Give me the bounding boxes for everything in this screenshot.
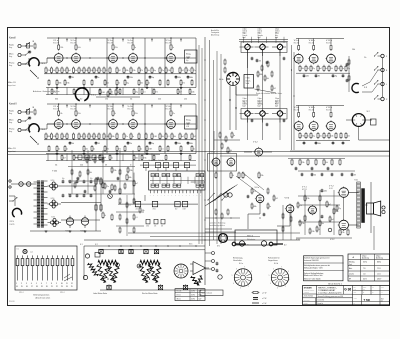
svg-text:T 651: T 651 bbox=[354, 180, 358, 182]
svg-text:120k: 120k bbox=[301, 162, 304, 164]
svg-text:4.62: 4.62 bbox=[354, 289, 357, 291]
svg-text:47k: 47k bbox=[187, 70, 190, 72]
record head feed wires bbox=[248, 203, 260, 229]
svg-text:Eing.: Eing. bbox=[9, 47, 13, 49]
svg-text:0.1: 0.1 bbox=[161, 149, 163, 151]
svg-text:6: 6 bbox=[41, 283, 42, 285]
svg-text:22n: 22n bbox=[173, 113, 176, 115]
connector pin 1 bbox=[16, 259, 19, 266]
svg-text:2-Spur: 2-Spur bbox=[362, 255, 367, 257]
svg-text:25µ: 25µ bbox=[347, 68, 350, 70]
svg-text:U 1: U 1 bbox=[17, 249, 20, 251]
svg-text:Form: Form bbox=[381, 287, 384, 289]
svg-text:470k: 470k bbox=[78, 113, 81, 115]
svg-text:1000 Ω: 1000 Ω bbox=[258, 31, 262, 33]
svg-text:50µ: 50µ bbox=[152, 143, 155, 145]
supply arrow bbox=[66, 105, 68, 108]
svg-text:50µ: 50µ bbox=[62, 178, 65, 180]
control box bbox=[175, 201, 180, 206]
tone control block bbox=[185, 50, 198, 63]
svg-text:1000 Ω: 1000 Ω bbox=[243, 31, 247, 33]
svg-text:56k: 56k bbox=[72, 143, 75, 145]
supply arrow bbox=[89, 105, 91, 108]
svg-text:20: 20 bbox=[46, 286, 48, 288]
tape head Hör-kopf II bbox=[277, 111, 282, 116]
svg-text:Radio: Radio bbox=[9, 111, 14, 113]
svg-text:2k2: 2k2 bbox=[117, 92, 120, 94]
svg-text:8n2: 8n2 bbox=[95, 136, 98, 138]
svg-text:1000 Ω: 1000 Ω bbox=[243, 100, 247, 102]
power tube upper bbox=[339, 188, 349, 198]
control box bbox=[152, 201, 157, 206]
svg-text:15: 15 bbox=[21, 286, 23, 288]
bus between strips bbox=[8, 151, 390, 153]
gap component row bbox=[51, 90, 53, 94]
anode resistor V 4 a bbox=[132, 45, 134, 49]
svg-text:Wiederg.: Wiederg. bbox=[349, 262, 355, 264]
left motor aux column bbox=[85, 254, 89, 258]
svg-text:56k: 56k bbox=[135, 158, 138, 160]
title block frame bbox=[303, 286, 390, 305]
svg-text:Aufnahme - Entzerrer 19 / 9.5: Aufnahme - Entzerrer 19 / 9.5 cm bbox=[33, 90, 60, 93]
erase osc coil bbox=[224, 193, 228, 197]
svg-text:2k2: 2k2 bbox=[347, 136, 350, 138]
svg-text:Gegenhören: Gegenhören bbox=[268, 259, 278, 262]
svg-text:56k: 56k bbox=[173, 136, 176, 138]
third cap bbox=[183, 285, 187, 289]
svg-text:32µ: 32µ bbox=[90, 178, 93, 180]
svg-text:Mikro 2 B: Mikro 2 B bbox=[8, 148, 16, 150]
tube V 11 b bbox=[327, 122, 336, 131]
svg-text:SM 6 b: SM 6 b bbox=[247, 236, 253, 238]
grid bus bbox=[47, 123, 196, 125]
psu ground rail bbox=[30, 230, 101, 232]
supply distribution wires bbox=[61, 185, 96, 187]
svg-text:680k: 680k bbox=[190, 77, 193, 79]
svg-text:Eing.: Eing. bbox=[9, 113, 13, 115]
anode resistor V 4 b bbox=[132, 111, 134, 115]
tape head Sprech-kopf I bbox=[260, 44, 265, 49]
svg-text:680k: 680k bbox=[190, 143, 193, 145]
svg-text:0.1: 0.1 bbox=[85, 136, 87, 138]
ground symbol bbox=[180, 85, 182, 88]
ground symbol bbox=[83, 151, 85, 154]
svg-text:10k: 10k bbox=[330, 68, 333, 70]
legend box masse bbox=[200, 290, 223, 296]
anode resistor V 3 b bbox=[112, 111, 114, 115]
svg-text:S 6 b: S 6 b bbox=[274, 263, 278, 265]
connector pin 5 bbox=[36, 259, 39, 266]
long vertical bus B bbox=[209, 40, 211, 246]
right motor W chain bbox=[139, 265, 147, 283]
relay contact row 2 bbox=[151, 184, 154, 187]
svg-text:56k: 56k bbox=[53, 70, 56, 72]
right motor junction bbox=[137, 264, 141, 268]
svg-text:47k: 47k bbox=[259, 60, 262, 62]
svg-text:8n2: 8n2 bbox=[319, 68, 322, 70]
long vertical bus A bbox=[204, 37, 206, 250]
svg-text:= 1 W: = 1 W bbox=[262, 292, 267, 294]
svg-text:ECC 81: ECC 81 bbox=[294, 43, 299, 45]
right edge bus bbox=[382, 58, 384, 98]
tube V 3 a bbox=[109, 54, 118, 63]
svg-text:25µ: 25µ bbox=[135, 92, 138, 94]
output jack strip bbox=[381, 54, 384, 57]
svg-text:V 2 b: V 2 b bbox=[71, 106, 77, 108]
tube V 5 b bbox=[167, 120, 176, 129]
svg-text:330k: 330k bbox=[141, 210, 144, 212]
svg-text:ECC 83: ECC 83 bbox=[128, 109, 133, 111]
svg-text:16: 16 bbox=[26, 286, 28, 288]
svg-text:V 5 a: V 5 a bbox=[166, 40, 172, 42]
panel lamp bbox=[23, 249, 27, 253]
psu aux column bbox=[102, 183, 104, 187]
module box around V6 tubes bbox=[208, 154, 237, 172]
speed table bbox=[175, 289, 205, 301]
svg-text:680k: 680k bbox=[85, 70, 88, 72]
voltage ref table bbox=[348, 254, 390, 281]
head label brackets bbox=[243, 37, 245, 43]
svg-text:Klang-: Klang- bbox=[186, 120, 191, 122]
svg-text:25: 25 bbox=[71, 286, 73, 288]
tube V 1 a bbox=[54, 54, 63, 63]
aux cap stack bbox=[216, 262, 219, 264]
grid bus bbox=[47, 57, 196, 59]
svg-text:V 1 b: V 1 b bbox=[53, 106, 59, 108]
svg-text:Klang-: Klang- bbox=[186, 54, 191, 56]
screen resistor row bbox=[45, 134, 47, 138]
svg-text:47k: 47k bbox=[155, 92, 158, 94]
anode resistor V 5 b bbox=[170, 111, 172, 115]
svg-text:1k: 1k bbox=[232, 175, 234, 177]
svg-text:56k: 56k bbox=[130, 99, 133, 101]
speaker feed wires bbox=[370, 182, 372, 233]
svg-text:N 1: N 1 bbox=[80, 244, 83, 246]
cap row right bbox=[303, 142, 306, 144]
lower rail right bbox=[296, 140, 350, 142]
control box bbox=[135, 201, 140, 206]
svg-text:680k: 680k bbox=[259, 74, 262, 76]
svg-text:Micro: Micro bbox=[9, 54, 13, 56]
svg-text:22n: 22n bbox=[193, 70, 196, 72]
function switch S6b rotary bbox=[227, 73, 240, 86]
cathode follower tube bbox=[255, 148, 263, 156]
svg-text:470k: 470k bbox=[178, 77, 181, 79]
svg-text:56k: 56k bbox=[80, 70, 83, 72]
motor terminal right bbox=[269, 242, 273, 246]
svg-text:8n2: 8n2 bbox=[80, 99, 83, 101]
svg-text:Eing.: Eing. bbox=[9, 56, 13, 58]
svg-text:S 5 a: S 5 a bbox=[91, 95, 97, 97]
svg-text:330k: 330k bbox=[125, 70, 128, 72]
head shield box ch1 bbox=[241, 42, 287, 53]
svg-text:18: 18 bbox=[36, 286, 38, 288]
svg-text:T 796: T 796 bbox=[364, 299, 371, 302]
svg-text:47k: 47k bbox=[154, 226, 156, 228]
svg-text:STUDER: STUDER bbox=[304, 288, 312, 290]
svg-text:19: 19 bbox=[41, 286, 43, 288]
svg-text:Eing.: Eing. bbox=[9, 131, 13, 133]
svg-text:Masse / Chassis: Masse / Chassis bbox=[202, 293, 213, 295]
svg-text:Tag: Tag bbox=[354, 287, 356, 289]
output stage horizontal wires bbox=[298, 195, 340, 197]
bias trap bbox=[215, 210, 217, 214]
connector pin 7 bbox=[46, 259, 49, 266]
grid wire bbox=[39, 124, 54, 129]
svg-text:5n: 5n bbox=[132, 136, 134, 138]
left motor resistor chain horizontal bbox=[98, 260, 118, 264]
svg-text:120k: 120k bbox=[311, 231, 314, 233]
inter-strip vertical wires bbox=[106, 104, 108, 154]
svg-text:= 2 W: = 2 W bbox=[262, 298, 267, 300]
ground rail bbox=[46, 87, 196, 89]
psu mid wires bbox=[116, 211, 144, 213]
svg-text:50µ: 50µ bbox=[312, 136, 315, 138]
svg-text:47k: 47k bbox=[118, 149, 121, 151]
svg-text:11: 11 bbox=[66, 283, 68, 285]
equalizer switch S5a bbox=[75, 88, 88, 101]
tape head Lösch-kopf II bbox=[245, 111, 250, 116]
connector pin 12 bbox=[71, 259, 74, 266]
svg-text:V 10 a: V 10 a bbox=[309, 40, 316, 42]
anode resistor V 1 a bbox=[58, 45, 60, 49]
svg-text:10k: 10k bbox=[325, 162, 328, 164]
svg-text:4n7: 4n7 bbox=[354, 174, 357, 176]
tube V 5 a bbox=[167, 54, 176, 63]
svg-text:56k: 56k bbox=[301, 68, 304, 70]
svg-text:56k: 56k bbox=[161, 136, 164, 138]
speed change rotary switch bbox=[174, 264, 188, 278]
motor bus drops bbox=[120, 250, 122, 254]
svg-text:2: 2 bbox=[21, 283, 22, 285]
mid caps right bbox=[295, 167, 298, 169]
svg-text:ECC 83: ECC 83 bbox=[128, 43, 133, 45]
aux circuit column bbox=[204, 250, 206, 285]
svg-text:100k: 100k bbox=[80, 165, 83, 167]
svg-text:220k: 220k bbox=[60, 47, 63, 49]
svg-text:220k: 220k bbox=[260, 175, 263, 177]
svg-text:2k2: 2k2 bbox=[181, 70, 184, 72]
svg-text:220k: 220k bbox=[184, 99, 187, 101]
svg-text:470k: 470k bbox=[146, 226, 149, 228]
svg-text:2k2: 2k2 bbox=[105, 70, 108, 72]
svg-text:56k: 56k bbox=[229, 150, 232, 152]
svg-text:56k: 56k bbox=[88, 160, 91, 162]
svg-text:470k: 470k bbox=[341, 232, 344, 234]
svg-text:V 6.2: V 6.2 bbox=[330, 239, 334, 241]
svg-text:25µ: 25µ bbox=[312, 68, 315, 70]
svg-text:22: 22 bbox=[56, 286, 58, 288]
svg-text:680k: 680k bbox=[55, 99, 58, 101]
third V chain bbox=[191, 276, 198, 285]
svg-text:470k: 470k bbox=[105, 99, 108, 101]
power tube lower bbox=[339, 220, 349, 230]
monitor box bbox=[371, 119, 377, 125]
ground symbol bbox=[83, 85, 85, 88]
svg-text:120k: 120k bbox=[191, 92, 194, 94]
diagonal contact bundle bbox=[205, 189, 230, 206]
speaker terminal bbox=[382, 206, 385, 209]
relay bank box bbox=[149, 171, 205, 190]
svg-text:120k: 120k bbox=[132, 70, 135, 72]
V8 caps bbox=[247, 195, 250, 197]
svg-text:ECC 81: ECC 81 bbox=[326, 43, 331, 45]
svg-text:ECC 83: ECC 83 bbox=[71, 43, 76, 45]
svg-text:V 1 a: V 1 a bbox=[53, 40, 59, 42]
gap vertical wires bbox=[47, 88, 49, 96]
svg-text:La 1: La 1 bbox=[30, 252, 33, 254]
capstan motor M1 bbox=[219, 234, 228, 243]
svg-text:Kanal II: Kanal II bbox=[9, 104, 17, 106]
svg-text:8n2: 8n2 bbox=[331, 219, 334, 221]
playback amp tube V6 b bbox=[227, 158, 235, 166]
svg-text:B 250: B 250 bbox=[52, 217, 56, 219]
svg-text:B 250: B 250 bbox=[51, 198, 55, 200]
bias oscillator wiring bbox=[236, 86, 258, 95]
svg-text:1k: 1k bbox=[307, 68, 309, 70]
motor terminal left bbox=[232, 242, 236, 246]
svg-text:17: 17 bbox=[31, 286, 33, 288]
svg-text:Kanal I: Kanal I bbox=[9, 38, 17, 40]
speaker bbox=[367, 203, 374, 214]
monitor switch S2 bbox=[352, 114, 365, 127]
svg-text:HF: HF bbox=[349, 279, 351, 281]
svg-text:ECC 83: ECC 83 bbox=[166, 43, 171, 45]
connector panel outline bbox=[15, 246, 77, 290]
svg-text:0.1: 0.1 bbox=[167, 136, 169, 138]
ch2 head down wires bbox=[247, 116, 249, 140]
top supply rail bbox=[47, 103, 196, 105]
svg-text:56k: 56k bbox=[55, 165, 58, 167]
input jacks S 1 bbox=[18, 44, 21, 47]
rotary switch diagram S6a bbox=[234, 269, 251, 286]
svg-text:0.1: 0.1 bbox=[143, 92, 145, 94]
playback eq network ch2 bbox=[86, 158, 88, 162]
svg-text:V 11 b: V 11 b bbox=[326, 107, 333, 109]
svg-text:100k: 100k bbox=[78, 47, 81, 49]
svg-text:47k: 47k bbox=[253, 191, 256, 193]
svg-text:680k: 680k bbox=[128, 177, 131, 179]
svg-text:1000 Ω: 1000 Ω bbox=[275, 31, 279, 33]
output transformer T651 winding bbox=[357, 182, 361, 228]
svg-text:Ansicht von unten: Ansicht von unten bbox=[36, 296, 51, 299]
anode resistor V 9 a bbox=[298, 46, 300, 50]
svg-text:ECC 83: ECC 83 bbox=[71, 109, 76, 111]
svg-text:8 µF: 8 µF bbox=[199, 299, 202, 301]
interstage junction dots bbox=[66, 57, 67, 58]
anode resistor V 9 b bbox=[298, 113, 300, 117]
svg-text:330k: 330k bbox=[318, 143, 321, 145]
supply arrow bbox=[122, 105, 124, 108]
output transformer core bar bbox=[361, 188, 365, 223]
svg-text:50µ: 50µ bbox=[126, 83, 129, 85]
svg-text:EL 34: EL 34 bbox=[329, 188, 333, 190]
wires S3 to jacks bbox=[362, 70, 378, 86]
svg-text:120k: 120k bbox=[330, 136, 333, 138]
svg-text:38 cm: 38 cm bbox=[177, 299, 182, 301]
left motor junction bbox=[116, 263, 120, 267]
head wires down bbox=[247, 50, 249, 111]
svg-text:Verbindungsstecker,: Verbindungsstecker, bbox=[33, 294, 50, 297]
svg-text:50 Hz: 50 Hz bbox=[191, 299, 195, 301]
svg-text:85 b: 85 b bbox=[189, 244, 192, 246]
svg-text:21: 21 bbox=[51, 286, 53, 288]
svg-text:56k: 56k bbox=[147, 70, 150, 72]
svg-text:470k: 470k bbox=[66, 83, 69, 85]
svg-text:680k: 680k bbox=[253, 206, 256, 208]
head wire parts ch1 bbox=[251, 57, 254, 59]
V8 surrounding resistors bbox=[251, 189, 253, 193]
right motor resistor chain horizontal bbox=[140, 260, 160, 264]
svg-text:10: 10 bbox=[61, 283, 63, 285]
svg-text:Sch: Sch bbox=[247, 245, 250, 247]
svg-text:220k: 220k bbox=[324, 190, 327, 192]
svg-text:ECC 81: ECC 81 bbox=[326, 110, 331, 112]
coupling caps output bbox=[321, 189, 324, 191]
svg-text:CPL 4: CPL 4 bbox=[19, 292, 23, 294]
svg-text:330k: 330k bbox=[352, 49, 355, 51]
interstage junction dots bbox=[66, 123, 67, 124]
voltage selector switch bbox=[12, 208, 21, 217]
connector pin 6 bbox=[41, 259, 44, 266]
svg-text:50µ: 50µ bbox=[152, 77, 155, 79]
svg-text:110/125: 110/125 bbox=[10, 224, 15, 226]
svg-text:P 30 103: P 30 103 bbox=[9, 301, 15, 303]
connector pin 4 bbox=[31, 259, 34, 266]
svg-text:G 36: G 36 bbox=[344, 288, 351, 292]
legend resistor 2W bbox=[253, 297, 258, 299]
tube V 11 a bbox=[327, 54, 336, 63]
S6b down wires bbox=[229, 86, 231, 131]
anode resistor V 3 a bbox=[112, 45, 114, 49]
svg-text:12: 12 bbox=[71, 283, 73, 285]
svg-text:10k: 10k bbox=[158, 165, 161, 167]
coupling caps bbox=[69, 76, 72, 78]
anode resistor V 11 a bbox=[330, 46, 332, 50]
svg-text:Mikro 1 B: Mikro 1 B bbox=[8, 82, 16, 84]
svg-text:5n: 5n bbox=[140, 149, 142, 151]
right aux caps bbox=[346, 63, 349, 65]
cap row right bbox=[303, 74, 306, 76]
border frame bbox=[8, 28, 390, 306]
tape head Sprech-kopf II bbox=[260, 111, 265, 116]
svg-text:Gilt ab Serie Nr. 1: Gilt ab Serie Nr. 1 bbox=[328, 282, 342, 285]
svg-text:25µ: 25µ bbox=[338, 208, 341, 210]
output selector switch arc bbox=[352, 83, 359, 92]
gap wire row bbox=[46, 94, 196, 96]
supply arrow bbox=[180, 39, 182, 42]
connector pin 2 bbox=[21, 259, 24, 266]
anode resistor V 10 a bbox=[313, 46, 315, 50]
svg-text:1000 Ω: 1000 Ω bbox=[275, 100, 279, 102]
svg-text:2k2: 2k2 bbox=[273, 88, 276, 90]
aux small rects bbox=[146, 219, 150, 224]
mid network caps bbox=[219, 133, 221, 137]
svg-text:Tonbl.: Tonbl. bbox=[246, 83, 251, 85]
svg-text:470k: 470k bbox=[306, 198, 309, 200]
svg-text:1: 1 bbox=[16, 283, 17, 285]
output wiring bbox=[300, 204, 340, 206]
rotary switch diagram S6b bbox=[271, 269, 288, 286]
svg-text:8n2: 8n2 bbox=[175, 209, 178, 211]
svg-text:22n: 22n bbox=[125, 136, 128, 138]
supply arrow bbox=[66, 39, 68, 42]
svg-text:5n: 5n bbox=[193, 149, 195, 151]
svg-text:4.80 V: 4.80 V bbox=[377, 279, 381, 281]
relay terminal ticks bbox=[150, 190, 152, 193]
mains fuse Si2 bbox=[27, 182, 31, 186]
pushbutton boxes row bbox=[143, 163, 148, 168]
